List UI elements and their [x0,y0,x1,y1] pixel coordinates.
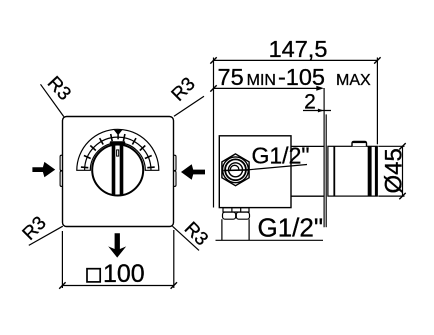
svg-text:G1/2": G1/2" [258,213,324,243]
svg-text:100: 100 [103,260,145,288]
svg-text:Ø45: Ø45 [381,148,408,193]
svg-text:147,5: 147,5 [269,36,328,62]
svg-text:2: 2 [304,91,316,114]
svg-text:G1/2": G1/2" [252,143,310,169]
